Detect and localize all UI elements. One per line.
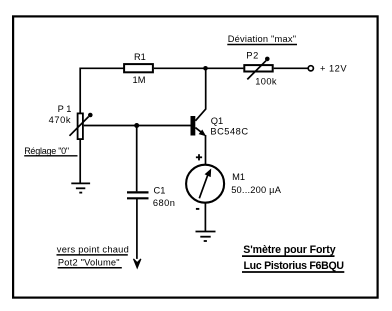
base wire P1 to Q1: [84, 125, 191, 127]
wire from P1 top to R1 left: [80, 68, 123, 112]
arrow to Pot2: [134, 259, 141, 268]
svg-text:BC548C: BC548C: [210, 127, 248, 137]
svg-text:+ 12V: + 12V: [320, 64, 347, 74]
wire base junction to C1: [136, 126, 138, 192]
potentiometer P1: [49, 104, 93, 139]
svg-text:P2: P2: [246, 50, 259, 60]
wire meter to ground: [204, 203, 206, 232]
svg-text:R1: R1: [134, 52, 146, 62]
svg-text:C1: C1: [154, 185, 166, 195]
capacitor C1: [127, 185, 175, 208]
svg-text:Réglage "0": Réglage "0": [24, 146, 69, 156]
ground under M1: [196, 232, 216, 242]
wire junction to P2: [206, 67, 244, 69]
label Réglage "0": [24, 146, 77, 156]
svg-text:470k: 470k: [49, 115, 72, 125]
potentiometer P2: [244, 50, 277, 86]
resistor R1: [124, 52, 153, 85]
svg-text:Déviation "max": Déviation "max": [228, 34, 297, 44]
label title S'mètre pour Forty / Luc Pistorius F6BQU: [242, 244, 344, 272]
svg-text:S'mètre pour Forty: S'mètre pour Forty: [243, 244, 335, 256]
terminal +12V: [308, 64, 347, 74]
wire Q1 emitter to meter: [205, 135, 207, 165]
ground under P1: [71, 183, 90, 192]
svg-text:680n: 680n: [153, 198, 175, 208]
svg-text:100k: 100k: [255, 76, 277, 86]
node base junction: [134, 123, 139, 128]
wire P2 to +12V terminal: [274, 67, 308, 69]
svg-text:Luc Pistorius F6BQU: Luc Pistorius F6BQU: [244, 260, 344, 272]
wire C1 to arrow (vers Pot2): [136, 198, 138, 259]
transistor Q1: [191, 116, 249, 137]
svg-text:P 1: P 1: [58, 104, 72, 114]
svg-text:vers point chaud: vers point chaud: [57, 244, 129, 254]
label Déviation "max": [227, 34, 297, 45]
meter M1: [186, 154, 282, 209]
label vers point chaud Pot2 "Volume": [57, 244, 130, 267]
wire P1 bottom to ground: [79, 140, 81, 183]
node collector junction: [203, 66, 208, 71]
svg-text:1M: 1M: [133, 75, 146, 85]
svg-text:M1: M1: [232, 172, 245, 182]
svg-text:Q1: Q1: [211, 116, 223, 126]
wire collector from junction to Q1: [195, 68, 205, 121]
wire R1 to collector junction: [154, 67, 206, 69]
svg-text:Pot2 "Volume": Pot2 "Volume": [58, 257, 120, 267]
svg-text:50...200 µA: 50...200 µA: [231, 185, 282, 195]
